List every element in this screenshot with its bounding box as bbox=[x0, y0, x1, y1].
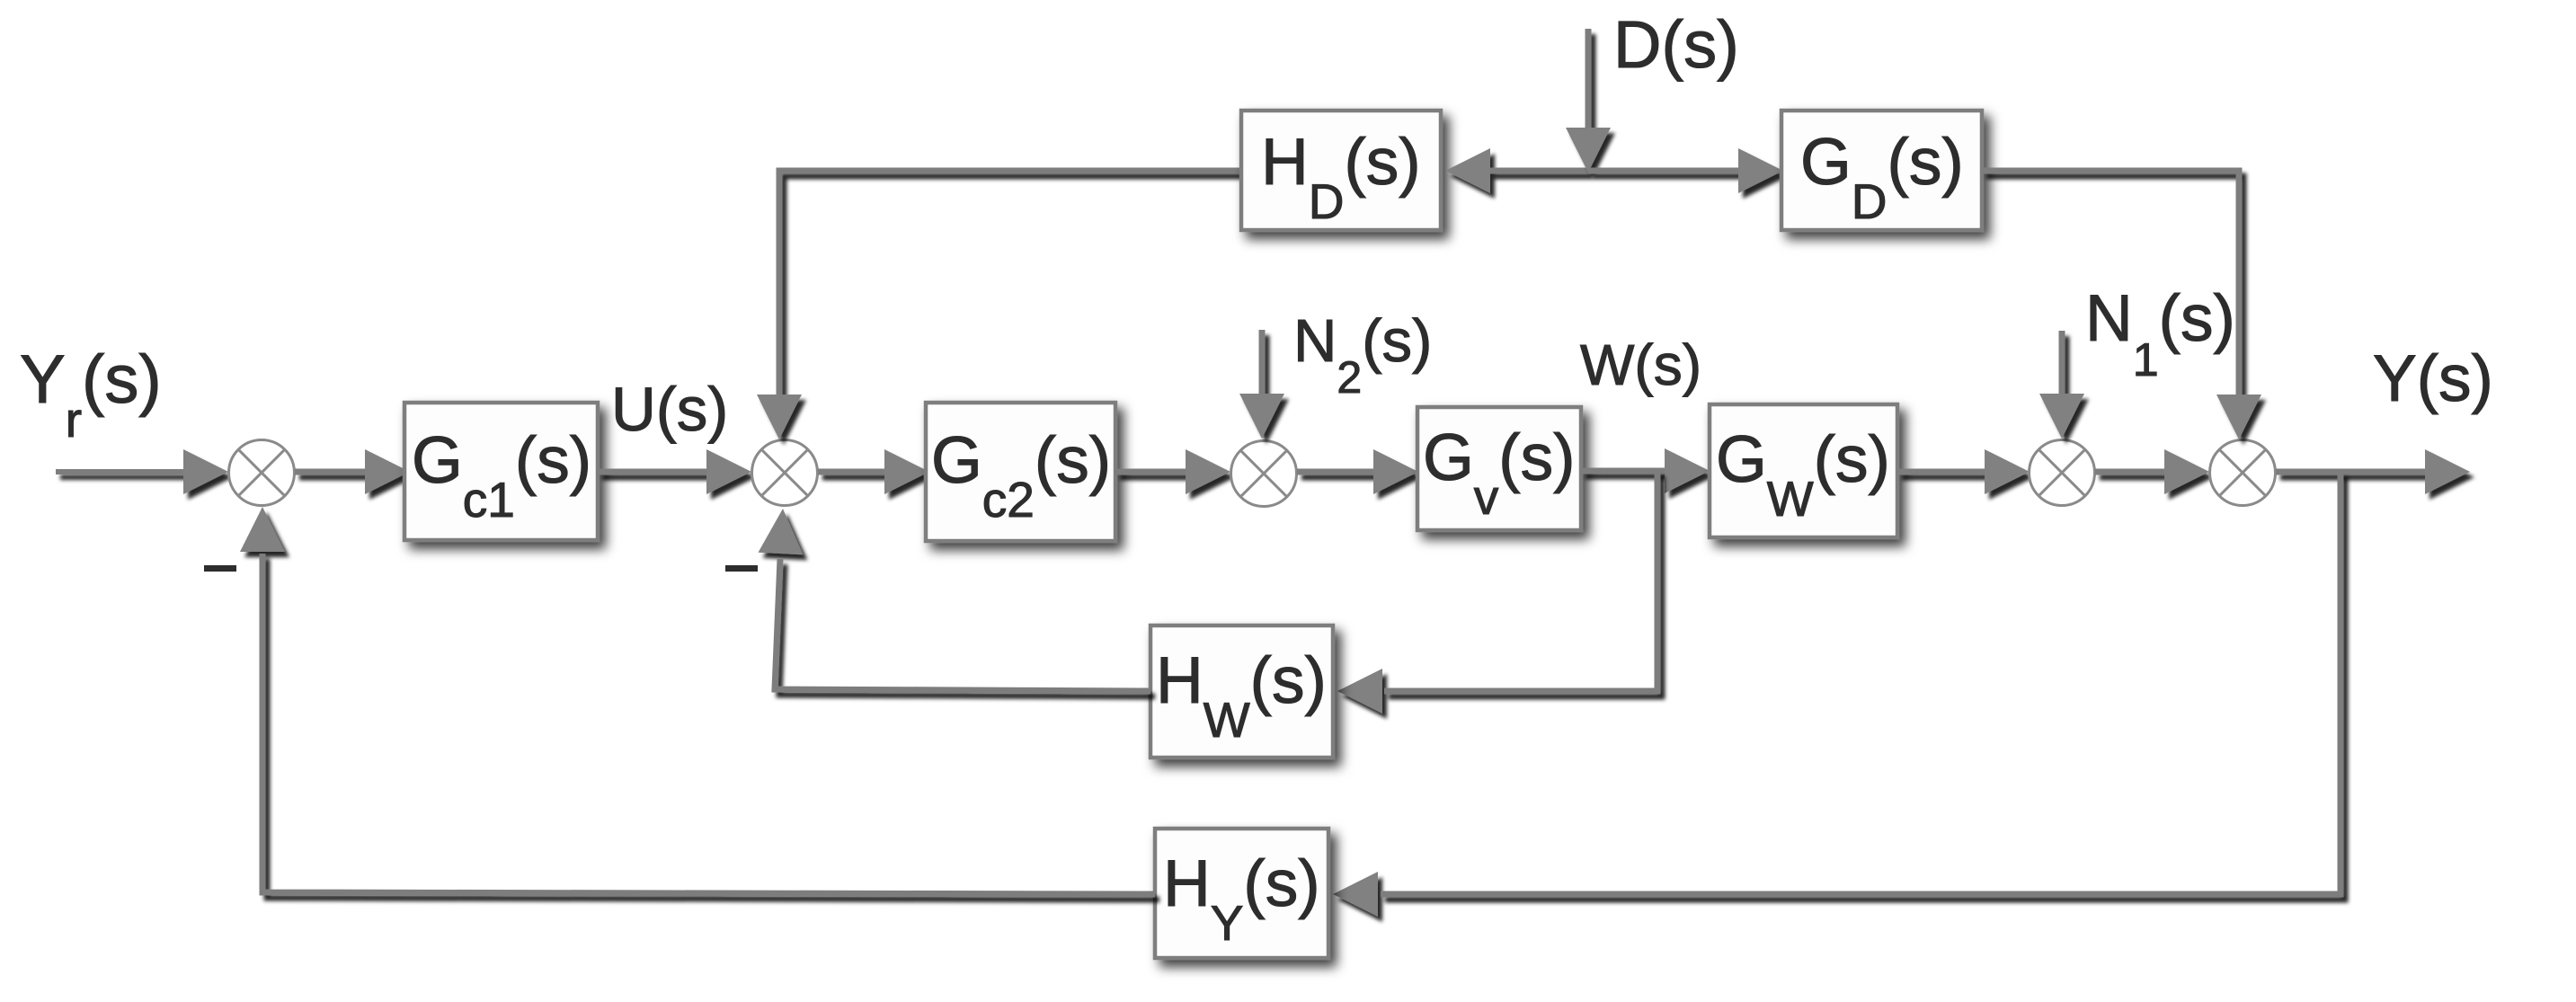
block GW bbox=[1710, 404, 1897, 537]
wire Gc1 to S2 bbox=[598, 449, 751, 494]
svg-text:U(s): U(s) bbox=[611, 375, 728, 444]
wire N1 into S4 bbox=[2039, 331, 2084, 439]
block Gc2 bbox=[926, 403, 1115, 541]
wire W tap down to HW bbox=[1337, 471, 1657, 714]
wire S1 to Gc1 bbox=[295, 449, 410, 494]
wire GW to S4 bbox=[1897, 449, 2030, 494]
wire D junction to HD bbox=[1445, 148, 1588, 193]
block HD bbox=[1241, 111, 1441, 230]
summing junction S4 bbox=[2030, 440, 2095, 506]
wire Y tap down and back to HY bbox=[1333, 472, 2341, 917]
block HY bbox=[1155, 829, 1328, 958]
wire S2 to Gc2 bbox=[818, 449, 929, 494]
wire S4 to S5 bbox=[2095, 449, 2209, 494]
wire Gc2 to S3 bbox=[1115, 449, 1230, 494]
block GD bbox=[1781, 111, 1982, 230]
wire D junction to GD bbox=[1588, 148, 1783, 193]
wire HY back to S1 bbox=[240, 507, 1155, 894]
block Gv bbox=[1417, 407, 1581, 530]
svg-text:Y(s): Y(s) bbox=[2373, 342, 2493, 415]
wire D(s) down into top line bbox=[1566, 29, 1611, 173]
wire HW back up into S2 bbox=[759, 509, 1151, 691]
minus sign at S2 bbox=[725, 565, 758, 572]
svg-text:D(s): D(s) bbox=[1613, 7, 1739, 82]
wire GD output down into S5 bbox=[1982, 171, 2261, 439]
block Gc1 bbox=[404, 403, 598, 540]
summing junction S2 bbox=[752, 440, 818, 506]
wire S3 to Gv bbox=[1297, 449, 1418, 494]
wire Gv to GW bbox=[1581, 448, 1710, 493]
summing junction S1 bbox=[229, 440, 295, 506]
summing junction S5 bbox=[2210, 440, 2276, 506]
block HW bbox=[1150, 625, 1333, 758]
summing junction S3 bbox=[1231, 441, 1297, 507]
svg-text:W(s): W(s) bbox=[1580, 333, 1701, 397]
minus sign at S1 bbox=[204, 565, 236, 572]
wire N2 into S3 bbox=[1239, 330, 1284, 439]
wire output Y(s) bbox=[2276, 449, 2470, 494]
wire input Yr to S1 bbox=[56, 449, 228, 494]
wire HD output down into S2 bbox=[757, 171, 1241, 439]
